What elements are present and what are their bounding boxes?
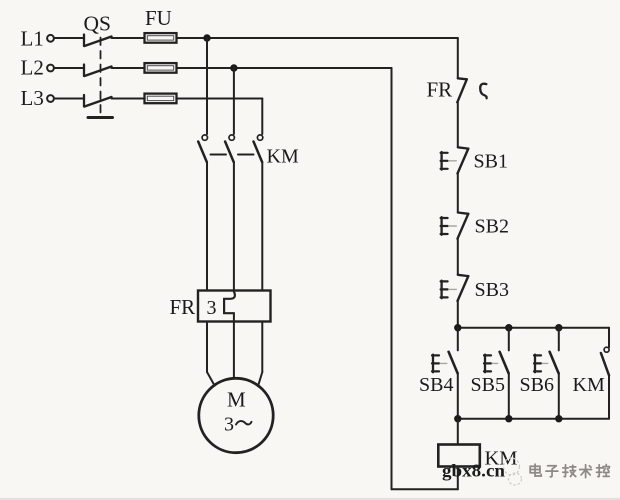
svg-text:SB1: SB1 — [474, 151, 508, 173]
wire corner down to FR contact — [457, 38, 459, 79]
wire bus to coil — [457, 419, 459, 445]
junction top bus C — [555, 324, 562, 331]
wire QS to FU row2 — [112, 67, 145, 69]
svg-text:FR: FR — [427, 78, 453, 102]
wire right slant into motor — [258, 372, 262, 386]
motor M — [199, 378, 273, 452]
svg-text:FR: FR — [170, 295, 196, 319]
watermark 电子技术控 — [530, 464, 609, 478]
wire left slant into motor — [207, 372, 215, 386]
wire bottom return — [392, 488, 458, 490]
wire corner down to KM pole 3 — [261, 99, 263, 135]
svg-text:L2: L2 — [21, 56, 44, 80]
contact FR NC (control) — [457, 78, 486, 102]
pushbutton SB1 (NC) — [441, 147, 469, 173]
node L3 — [21, 86, 54, 110]
pushbutton SB2 (NC) — [441, 213, 469, 239]
svg-text:L3: L3 — [21, 86, 44, 110]
coil KM — [438, 445, 480, 467]
junction L1 feed — [203, 34, 210, 41]
wire FR to SB1 — [457, 102, 459, 147]
svg-text:SB3: SB3 — [475, 279, 509, 301]
junction L2 feed — [230, 64, 237, 71]
pushbutton SB3 (NC) — [441, 275, 469, 301]
fuse FU1 — [145, 33, 177, 43]
wire QS to FU row3 — [112, 98, 145, 100]
wire SB2 to SB3 — [457, 239, 459, 275]
wire bottom bus — [458, 418, 609, 420]
wire L2 to QS — [54, 67, 84, 69]
contactor KM linkage dashes — [211, 154, 254, 156]
svg-text:3: 3 — [224, 414, 234, 436]
pushbutton SB5 (NO) — [484, 328, 509, 419]
svg-text:SB4: SB4 — [419, 374, 453, 396]
contact KM auxiliary (NO) — [601, 328, 609, 419]
wire FU3 to corner — [177, 98, 263, 100]
svg-text:FU: FU — [145, 6, 172, 30]
watermark logo — [504, 458, 522, 485]
thermal relay FR heater box — [198, 291, 271, 322]
junction bottom bus B — [505, 415, 512, 422]
node L1 — [21, 27, 54, 51]
svg-text:SB5: SB5 — [471, 374, 505, 396]
contactor KM main contact pole 3 — [254, 135, 263, 162]
wire SB3 to top bus — [457, 301, 459, 328]
svg-text:3: 3 — [207, 297, 217, 319]
wire L2 junction down to KM pole 2 — [233, 68, 235, 134]
wire FU2 to right corner — [177, 67, 392, 69]
junction bottom bus A — [454, 415, 461, 422]
svg-text:SB2: SB2 — [475, 216, 509, 238]
wire top bus — [458, 327, 609, 329]
pushbutton SB6 (NO) — [534, 328, 559, 419]
junction top bus B — [505, 324, 512, 331]
bottom edge shade — [0, 498, 620, 500]
svg-text:KM: KM — [573, 374, 605, 396]
wire L1 junction down to KM pole 1 — [206, 38, 208, 134]
svg-text:L1: L1 — [21, 27, 44, 51]
node L2 — [21, 56, 54, 80]
contactor KM main contact pole 2 — [225, 135, 234, 162]
svg-text:SB6: SB6 — [520, 374, 554, 396]
wire SB1 to SB2 — [457, 174, 459, 213]
contactor KM main contact pole 1 — [198, 135, 207, 162]
switch QS — [84, 12, 113, 118]
wire L1 to QS — [54, 37, 84, 39]
junction bottom bus C — [555, 415, 562, 422]
pushbutton SB4 (NO) — [432, 328, 458, 419]
wire L3 to QS — [54, 98, 84, 100]
fuse FU3 — [145, 94, 177, 104]
svg-text:KM: KM — [267, 146, 299, 168]
wire KM pole1 to motor — [206, 162, 208, 372]
wire return vertical (left side of control loop) — [391, 68, 393, 489]
wire QS to FU row1 — [112, 37, 145, 39]
svg-text:gbx8.cn: gbx8.cn — [442, 461, 505, 481]
wire KM pole3 to motor — [261, 162, 263, 372]
wire coil to bottom corner — [457, 467, 459, 490]
wire FU1 to control branch corner — [177, 37, 458, 39]
junction top bus A — [454, 324, 461, 331]
wire FR heater to motor (middle) — [233, 313, 235, 378]
svg-text:QS: QS — [84, 12, 111, 36]
svg-text:M: M — [227, 388, 246, 412]
wire KM pole2 to FR heater — [233, 162, 235, 292]
fuse FU2 — [145, 63, 177, 73]
